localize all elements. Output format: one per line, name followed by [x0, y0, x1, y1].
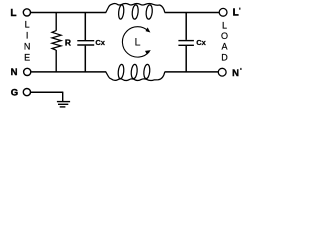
svg-text:D: D — [221, 52, 228, 62]
capacitor Cx right — [178, 13, 194, 72]
svg-text:I: I — [26, 30, 29, 40]
text LINE — [24, 19, 31, 62]
ground symbol — [57, 102, 70, 107]
wire ground vertical — [62, 92, 64, 101]
choke circular arrow — [122, 27, 150, 57]
svg-text:L: L — [222, 21, 227, 31]
choke top winding — [105, 3, 165, 19]
svg-text:Cx: Cx — [196, 38, 206, 47]
svg-text:L: L — [135, 36, 141, 48]
svg-text:R: R — [65, 38, 71, 48]
wire ground horizontal — [31, 91, 63, 93]
wire top right (choke to L') — [165, 12, 220, 14]
choke bottom winding — [105, 64, 165, 80]
svg-text:N: N — [11, 67, 18, 78]
svg-text:L: L — [10, 8, 16, 19]
wire bottom left (N to choke) — [31, 71, 106, 73]
svg-text:G: G — [11, 87, 18, 98]
terminal L' — [219, 8, 227, 16]
text LOAD — [221, 21, 228, 63]
terminal L — [23, 9, 30, 16]
svg-text:O: O — [221, 31, 228, 41]
terminal N' — [218, 68, 226, 76]
capacitor Cx left — [77, 13, 94, 72]
wire bottom right (choke to N') — [165, 71, 219, 73]
svg-text:L: L — [233, 8, 239, 19]
svg-text:Cx: Cx — [95, 38, 105, 47]
svg-text:A: A — [221, 42, 227, 52]
svg-text:N: N — [232, 68, 239, 79]
terminal N — [24, 68, 31, 75]
svg-text:E: E — [24, 52, 30, 62]
resistor R — [52, 13, 61, 72]
svg-text:N: N — [24, 41, 31, 51]
terminal G — [23, 89, 30, 96]
svg-text:L: L — [25, 19, 30, 29]
wire top left (L to choke) — [31, 12, 106, 14]
